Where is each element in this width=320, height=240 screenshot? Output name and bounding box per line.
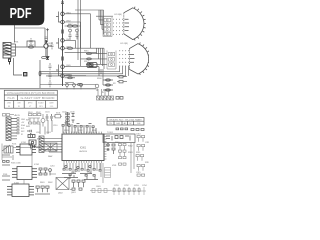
diode D7 — [46, 29, 49, 31]
heatsink block — [56, 178, 69, 190]
svg-text:C110: C110 — [53, 125, 57, 127]
revision table — [107, 118, 144, 126]
capacitor C20 — [27, 130, 31, 134]
svg-text:R312: R312 — [145, 162, 149, 164]
resistor R13 — [106, 89, 111, 91]
svg-text:R202: R202 — [78, 130, 83, 132]
svg-text:R301: R301 — [115, 142, 120, 144]
svg-text:C502: C502 — [87, 172, 92, 174]
value labels bottom page — [3, 112, 150, 195]
transistor base taps — [56, 12, 61, 76]
capacitor C30 — [107, 143, 110, 151]
resistor R5 — [87, 58, 92, 60]
svg-text:V301: V301 — [112, 165, 116, 167]
svg-text:C701: C701 — [114, 185, 119, 187]
CRT socket XS1 — [103, 17, 112, 37]
svg-text:SW1: SW1 — [26, 120, 30, 122]
bottom right component row — [90, 189, 112, 193]
svg-text:R101: R101 — [28, 112, 33, 114]
svg-text:R302: R302 — [128, 146, 133, 148]
svg-text:IR1: IR1 — [37, 139, 40, 141]
wire P3 to IC — [44, 139, 62, 152]
diode D5 — [45, 41, 48, 44]
capacitor ladder C50 — [66, 112, 75, 126]
svg-text:VOTEL ELECTRONICS (PVT) LTD B: VOTEL ELECTRONICS (PVT) LTD BAD PROOF — [7, 92, 56, 95]
svg-text:Q904: Q904 — [66, 47, 71, 49]
svg-text:R930: R930 — [97, 78, 102, 80]
wire bottom-left diagonals — [2, 145, 13, 180]
svg-text:APPD: APPD — [28, 102, 33, 105]
svg-text:G-64: G-64 — [116, 123, 120, 125]
svg-text:LA76810: LA76810 — [79, 150, 88, 153]
wire return lines — [40, 66, 129, 85]
svg-text:C105: C105 — [62, 112, 67, 114]
input header cluster — [3, 114, 15, 117]
resistor R6 — [87, 63, 92, 65]
wire vertical x47 — [47, 28, 49, 56]
CRT V2 bell — [129, 43, 150, 75]
svg-text:R602: R602 — [48, 182, 53, 184]
capacitor C13 electrolytic — [80, 84, 83, 90]
svg-text:L101: L101 — [36, 132, 40, 134]
title block — [4, 90, 57, 108]
svg-text:P201: P201 — [12, 144, 16, 146]
svg-text:RJ: RJ — [18, 106, 20, 108]
svg-text:Q905: Q905 — [66, 65, 71, 67]
transistor Q10 — [95, 84, 99, 91]
svg-text:C315: C315 — [136, 172, 141, 174]
capacitor C11 electrolytic — [66, 84, 69, 90]
terminal strip TB1 — [97, 89, 114, 100]
capacitor C10 — [49, 80, 52, 87]
capacitor C5 — [29, 38, 32, 44]
power IC U5 — [7, 184, 34, 197]
svg-text:IC201: IC201 — [21, 142, 26, 144]
capacitor C1 top of bus — [61, 2, 64, 4]
svg-text:VT: VT — [29, 106, 31, 108]
svg-text:R311: R311 — [136, 152, 140, 154]
capacitor C2 electrolytic — [68, 29, 71, 39]
transistor Q5 — [61, 65, 65, 69]
components above IC801 — [62, 121, 96, 133]
resistor R4 — [87, 53, 92, 55]
spark gap block — [87, 63, 97, 68]
svg-text:Q910: Q910 — [48, 43, 53, 45]
svg-text:R102: R102 — [36, 112, 41, 114]
transistor Q9 — [44, 40, 52, 56]
svg-text:R601: R601 — [40, 182, 45, 184]
svg-text:C301: C301 — [105, 146, 110, 148]
svg-text:R303: R303 — [128, 152, 133, 154]
svg-text:Q902: Q902 — [66, 21, 71, 23]
crystal X1 — [54, 115, 63, 118]
keypad resistors cluster — [28, 114, 41, 125]
resistor R9 — [28, 46, 33, 48]
IC801 bottom pins — [64, 161, 102, 163]
resistor R24 vertical — [39, 71, 41, 76]
capacitor C6 — [44, 37, 47, 38]
svg-text:R917: R917 — [84, 61, 89, 63]
diode D1 — [9, 59, 11, 65]
svg-text:G-6427 CRT BOARD: G-6427 CRT BOARD — [21, 97, 55, 100]
wire nets to socket 2 — [65, 14, 108, 78]
resistor cluster right of U4 — [39, 168, 47, 175]
svg-text:TU101: TU101 — [107, 132, 114, 134]
transistor Q3 — [61, 39, 65, 43]
svg-text:R912: R912 — [68, 24, 73, 26]
svg-text:X101: X101 — [56, 113, 60, 115]
resistor R1 — [67, 25, 72, 27]
transistor Q1 — [61, 12, 65, 16]
svg-text:GY-1(R): GY-1(R) — [120, 43, 128, 45]
resistor R14 — [117, 76, 127, 78]
resistor R8 — [77, 83, 82, 85]
svg-text:SAW: SAW — [48, 155, 52, 158]
wire RGB drive nets to socket 1 — [15, 10, 114, 34]
IC801 top pins — [64, 132, 102, 134]
resistor R11 — [106, 79, 111, 81]
parts right of U5 — [35, 186, 50, 194]
wire loop — [27, 41, 35, 47]
svg-text:SCL: SCL — [21, 128, 25, 130]
CRT V2 grid dots — [119, 50, 129, 66]
svg-text:AV IN: AV IN — [15, 114, 21, 117]
capacitor C7 — [51, 42, 54, 49]
vertical reg — [105, 168, 111, 178]
capacitor C4 dark — [24, 73, 27, 76]
cluster right column A — [119, 144, 127, 166]
transistor Q2 — [61, 20, 65, 24]
svg-text:R501: R501 — [71, 172, 76, 174]
svg-text:R305 C306: R305 C306 — [11, 163, 21, 165]
svg-text:Q602: Q602 — [58, 193, 63, 195]
svg-text:IC601: IC601 — [14, 182, 19, 184]
focus resistor chain — [103, 80, 113, 90]
wire right verticals — [78, 0, 81, 66]
resistor R2 — [72, 25, 77, 27]
transistor Q6 — [61, 74, 65, 78]
parts right of heatsink — [72, 180, 85, 190]
IC U3 — [16, 144, 36, 155]
svg-text:Q906: Q906 — [66, 74, 71, 76]
capacitor C12 electrolytic — [73, 84, 76, 90]
connector P1 — [3, 43, 11, 59]
svg-text:GY-3(B): GY-3(B) — [114, 14, 122, 16]
CRT socket XS2 — [107, 51, 116, 70]
capacitor C21 — [46, 114, 49, 121]
svg-text:GND: GND — [21, 119, 26, 121]
wire left riser — [14, 58, 41, 88]
tuner box — [103, 134, 135, 143]
svg-text:IC202: IC202 — [34, 164, 39, 166]
parts above tuner — [116, 128, 144, 131]
resistor R10 — [42, 57, 47, 59]
resistor R20 on-bus — [62, 29, 64, 33]
value labels top page — [14, 12, 116, 85]
svg-text:C101: C101 — [45, 112, 50, 114]
resistor R7 — [68, 77, 73, 79]
small parts row — [2, 161, 10, 166]
svg-text:C601: C601 — [96, 186, 101, 188]
svg-text:C106: C106 — [70, 112, 75, 114]
resistor R15 — [117, 81, 127, 83]
parts below IC801 — [64, 165, 98, 179]
IC801 main IC — [62, 134, 104, 161]
svg-text:SCALE: SCALE — [38, 102, 44, 105]
svg-text:R902: R902 — [29, 45, 34, 47]
svg-text:C310: C310 — [136, 134, 141, 136]
wire connector pins — [11, 119, 17, 139]
cluster right column B — [136, 136, 145, 177]
connector P2 — [6, 117, 11, 141]
diode D6 — [46, 57, 49, 60]
svg-text:PG-46: PG-46 — [8, 97, 16, 100]
audio IC U4 — [12, 167, 37, 180]
svg-text:P901: P901 — [14, 42, 18, 44]
capacitor C9 — [49, 72, 52, 79]
svg-text:1-99: 1-99 — [137, 123, 140, 125]
svg-text:Q901: Q901 — [66, 12, 71, 14]
svg-text:SW2: SW2 — [26, 126, 30, 128]
svg-text:Q601: Q601 — [71, 192, 76, 194]
CRT V1 grid dots — [113, 19, 123, 35]
svg-text:MODEL NO : GT-2101 MAIN: MODEL NO : GT-2101 MAIN — [110, 118, 143, 121]
svg-text:Q101: Q101 — [46, 132, 51, 134]
svg-text:C702: C702 — [124, 185, 129, 187]
IC801 right pins — [104, 137, 106, 160]
svg-text:Q903: Q903 — [66, 39, 71, 41]
wire main vertical bus — [62, 0, 64, 86]
svg-text:C311: C311 — [145, 142, 149, 144]
transistor Q4 — [61, 46, 65, 50]
CRT V1 bell — [124, 7, 146, 41]
resistor R30 — [112, 144, 115, 154]
resistor R3 — [67, 47, 72, 49]
svg-text:C210: C210 — [50, 166, 55, 168]
wire mid risers — [36, 120, 52, 147]
wire baseline — [0, 88, 96, 90]
svg-text:C703: C703 — [134, 185, 139, 187]
resistor R21 on-bus — [62, 56, 64, 60]
wire connector merge — [11, 25, 45, 56]
capacitor C40 — [49, 169, 52, 176]
resistor R16 — [116, 97, 123, 100]
wire interconnects bottom page — [2, 144, 72, 190]
svg-text:PDF: PDF — [10, 5, 32, 22]
svg-text:P301: P301 — [3, 174, 7, 176]
svg-text:IC801: IC801 — [80, 148, 87, 150]
svg-text:2-99: 2-99 — [50, 106, 53, 108]
svg-text:R203: R203 — [92, 130, 97, 132]
resistor R12 — [106, 84, 111, 86]
IF module shielded — [44, 143, 57, 151]
svg-text:C704: C704 — [142, 185, 147, 187]
svg-text:R201: R201 — [64, 130, 69, 132]
below IC risers — [64, 163, 100, 173]
capacitor C3 electrolytic — [75, 29, 78, 39]
PDF badge — [0, 0, 44, 25]
connector P3 — [39, 136, 44, 153]
capacitor C8 — [49, 63, 52, 70]
transformer T2 — [4, 146, 13, 153]
inductor L1 — [28, 135, 35, 138]
capacitor C22 — [50, 114, 53, 121]
wire right verticals — [101, 143, 134, 183]
IR receiver U7 — [29, 140, 36, 148]
transistor Q20 — [41, 114, 45, 127]
svg-text:R915: R915 — [84, 51, 89, 53]
resistor pack — [17, 118, 19, 134]
resistor row below IC — [62, 169, 101, 174]
